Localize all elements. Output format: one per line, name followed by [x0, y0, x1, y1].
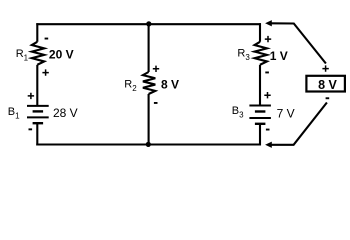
- svg-text:R3: R3: [237, 48, 250, 63]
- polarity minus R2: [154, 102, 158, 104]
- svg-text:7 V: 7 V: [277, 106, 295, 120]
- wire top: [36, 23, 261, 25]
- node bottom middle: [146, 142, 151, 147]
- polarity minus R3: [265, 72, 269, 74]
- polarity plus B1: [28, 93, 34, 99]
- wire bottom: [36, 143, 261, 145]
- resistor R3: [255, 42, 267, 65]
- polarity plus R2: [153, 66, 159, 72]
- polarity minus B1: [29, 128, 33, 130]
- wire left middle (R1 to B1): [36, 65, 38, 106]
- battery B3: [249, 106, 271, 124]
- polarity plus source box: [322, 65, 328, 71]
- svg-text:8 V: 8 V: [161, 77, 179, 91]
- polarity minus B3: [266, 129, 270, 131]
- resistor R1: [32, 42, 44, 65]
- svg-text:1 V: 1 V: [270, 49, 288, 63]
- wire right middle (R3 to B3): [259, 65, 261, 106]
- resistor R2: [143, 72, 155, 94]
- wire left bottom (B1 to bottom): [36, 123, 38, 145]
- battery B1: [27, 106, 49, 123]
- arrow top (from source box to top-right node): [265, 20, 326, 63]
- wire right bottom (B3 to bottom): [259, 124, 261, 146]
- wire left top (into R1): [36, 23, 38, 42]
- polarity plus R3: [265, 36, 271, 42]
- svg-text:R2: R2: [124, 79, 137, 94]
- wire right top (into R3): [259, 23, 261, 42]
- svg-text:R1: R1: [16, 48, 29, 63]
- svg-text:28 V: 28 V: [53, 106, 78, 120]
- wire middle top (into R2): [148, 24, 150, 72]
- source box 8 V: [306, 76, 345, 92]
- svg-text:B1: B1: [8, 106, 20, 121]
- svg-text:20 V: 20 V: [49, 48, 74, 62]
- node top middle: [146, 21, 151, 26]
- polarity minus source box: [326, 97, 330, 99]
- svg-text:8 V: 8 V: [318, 78, 337, 92]
- polarity minus R1: [45, 38, 49, 40]
- polarity plus R1: [42, 69, 48, 75]
- svg-text:B3: B3: [232, 105, 244, 120]
- arrow bottom (from source box to bottom-right node): [265, 103, 327, 148]
- wire middle bottom (R2 to bottom): [148, 94, 150, 145]
- polarity plus B3: [264, 92, 270, 98]
